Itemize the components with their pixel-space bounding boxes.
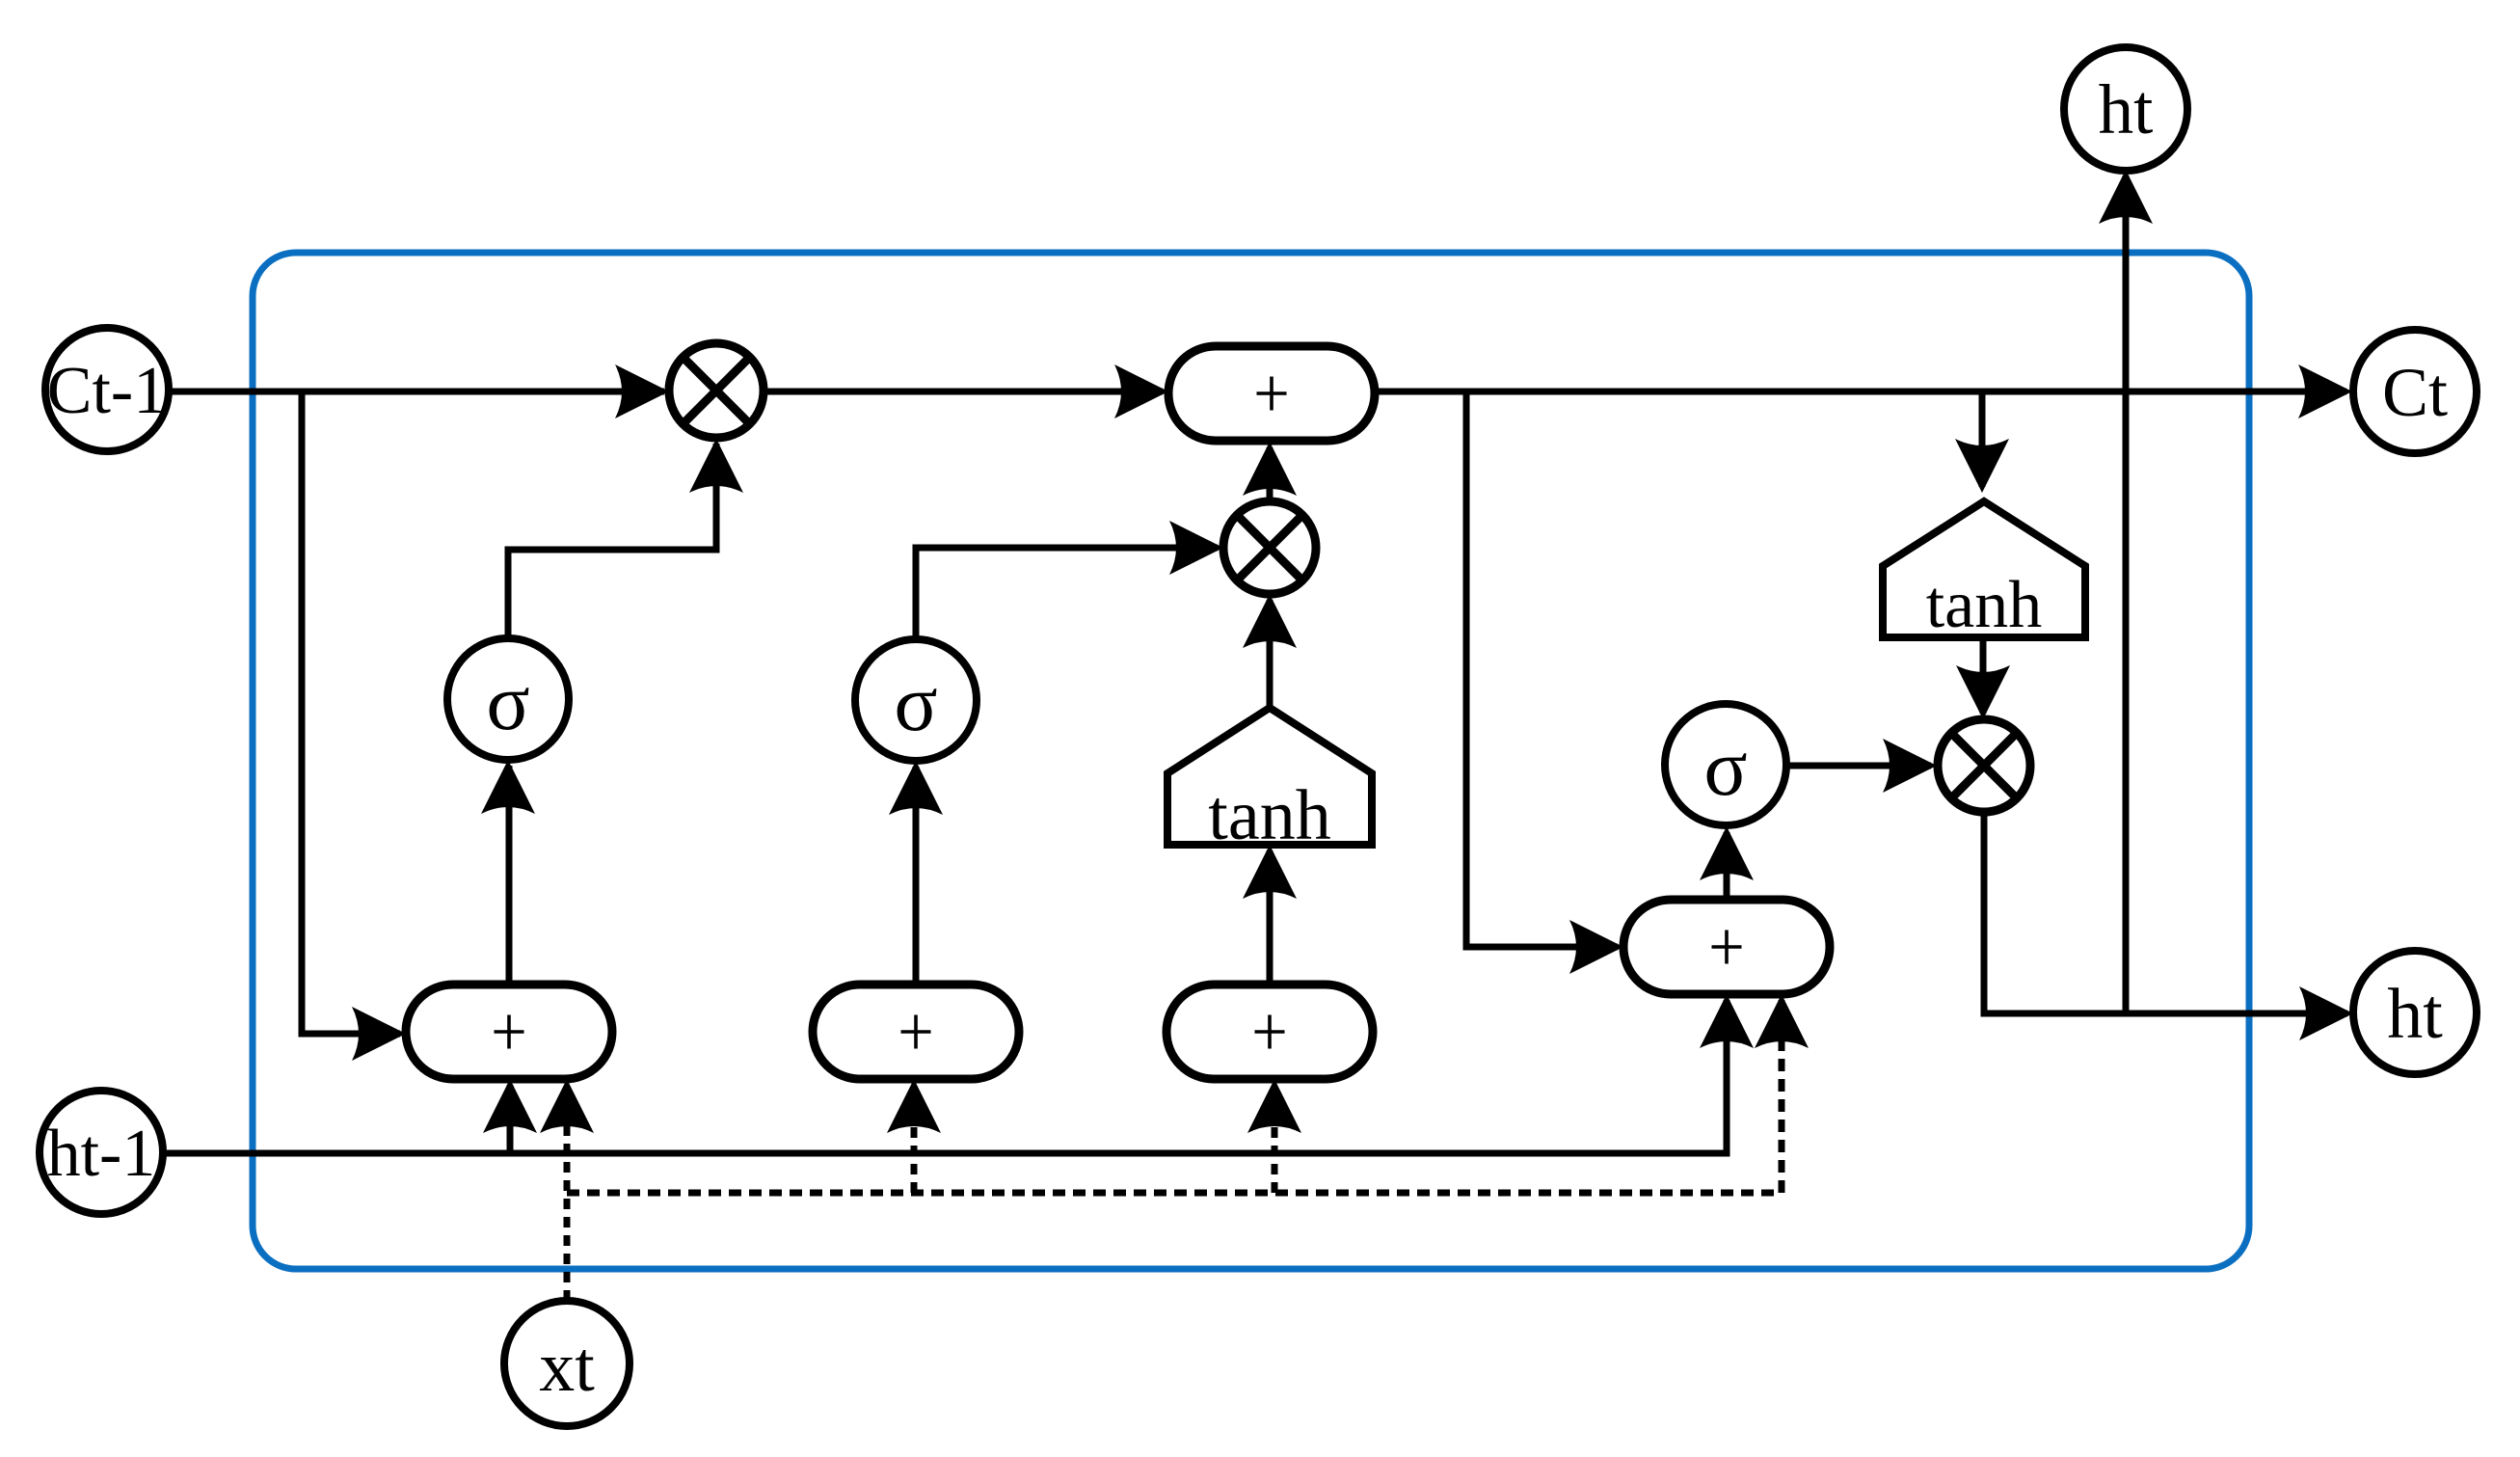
wire add node to Ct output [1375, 364, 2352, 418]
wire junction up to ht top output [2099, 170, 2153, 1013]
LSTM cell boundary (blue rounded box) [253, 253, 2249, 1269]
wire add3 to tanh1 [1243, 845, 1297, 985]
wire ht-1 up into PLUS-1 [483, 1079, 537, 1153]
dashed wire xt up into PLUS-3 [1247, 1079, 1301, 1193]
wire sigma3 to X3 [1787, 739, 1937, 793]
tanh block TANH-1 (candidate) [1167, 708, 1372, 855]
wire sigma2 to X2 [916, 521, 1223, 644]
svg-text:σ: σ [486, 658, 529, 747]
wire ht-1 bus [163, 994, 1754, 1153]
svg-text:ht: ht [2387, 975, 2443, 1054]
svg-text:Ct: Ct [2382, 354, 2448, 431]
svg-text:tanh: tanh [1926, 568, 2043, 642]
tanh block TANH-2 (output squash) [1883, 501, 2085, 642]
wire X1 to add node [764, 364, 1168, 418]
add node PLUS-C (cell state sum) [1168, 346, 1375, 441]
wire add2 to sigma2 [889, 761, 943, 985]
node ht output top [2064, 47, 2187, 171]
wire branch Ct-1 down to forget add node [302, 391, 406, 1061]
wire branch C line down to tanh2 [1955, 391, 2009, 493]
dashed wire xt up into PLUS-2 [887, 1079, 941, 1193]
svg-text:σ: σ [1703, 723, 1747, 813]
dashed wire xt up into PLUS-1 [540, 1079, 594, 1301]
wire tanh2 down to X3 [1956, 637, 2010, 719]
wire X3 to ht output [1984, 812, 2353, 1040]
sigma node S1 (forget gate) [447, 638, 569, 760]
wire Ct-1 to multiply node [166, 364, 669, 418]
multiply node X2 (input*candidate) [1223, 501, 1316, 594]
svg-text:Ct-1: Ct-1 [47, 354, 167, 428]
add node PLUS-3 (candidate sum) [1166, 985, 1373, 1079]
wire tanh1 to X2 [1243, 594, 1297, 706]
add node PLUS-2 (input gate sum) [813, 985, 1019, 1079]
svg-text:σ: σ [894, 659, 937, 748]
node ht-1 input [40, 1091, 163, 1214]
wire PLUS-4 to sigma3 [1700, 826, 1754, 900]
svg-text:xt: xt [539, 1328, 595, 1407]
add node PLUS-4 (output gate sum) [1623, 900, 1830, 994]
node Ct output [2353, 330, 2477, 453]
node ht output right [2353, 951, 2477, 1074]
add node PLUS-1 (forget gate sum) [406, 985, 612, 1079]
node Ct-1 input [45, 328, 169, 451]
wire add1 to sigma1 [481, 760, 535, 985]
node xt input [504, 1301, 630, 1426]
multiply node X1 (forget gate product) [669, 343, 764, 438]
svg-text:ht-1: ht-1 [47, 1117, 156, 1191]
wire X2 to PLUS-C [1243, 442, 1297, 501]
sigma node S2 (input gate) [855, 639, 977, 761]
svg-text:ht: ht [2099, 70, 2154, 148]
dashed wire xt bus [567, 994, 1809, 1301]
wire sigma1 to X1 [508, 439, 743, 644]
multiply node X3 (output product) [1938, 719, 2030, 812]
svg-text:tanh: tanh [1208, 776, 1330, 855]
sigma node S3 (output gate) [1665, 704, 1786, 825]
wire branch C line down to PLUS-4 [1466, 391, 1623, 974]
